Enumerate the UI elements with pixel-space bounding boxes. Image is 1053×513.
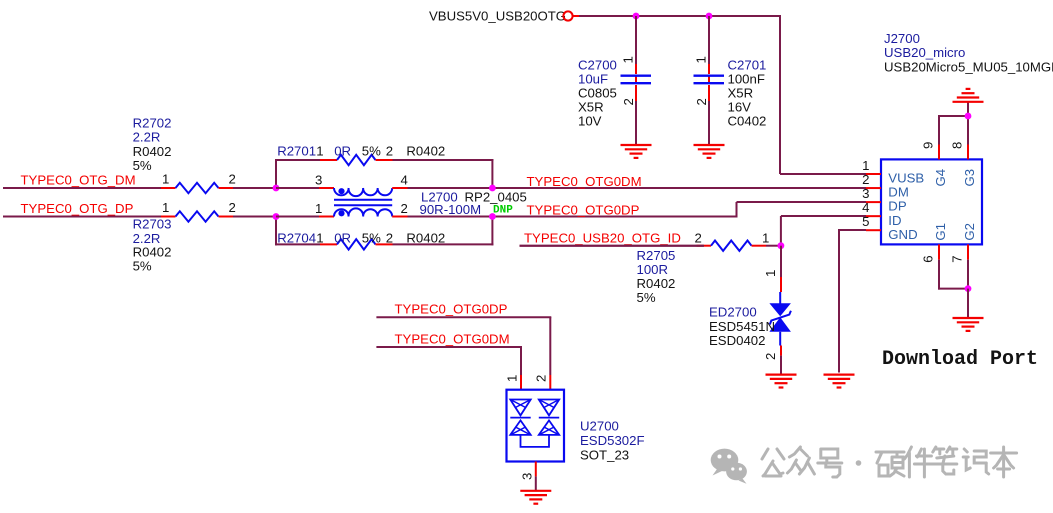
svg-text:TYPEC0_OTG_DP: TYPEC0_OTG_DP [21,201,134,216]
svg-text:3: 3 [315,172,322,187]
svg-text:R2705: R2705 [637,248,676,263]
svg-text:TYPEC0_OTG0DP: TYPEC0_OTG0DP [527,202,640,217]
svg-text:G3: G3 [962,169,977,187]
svg-text:2: 2 [694,98,709,105]
svg-text:2.2R: 2.2R [133,231,161,246]
junction VBUS/C2701 [706,13,713,20]
svg-text:2: 2 [386,230,393,245]
svg-text:ESD5302F: ESD5302F [580,433,645,448]
svg-text:X5R: X5R [578,100,604,115]
junction DM/R2701 [273,185,280,192]
svg-text:X5R: X5R [728,86,754,101]
wire J2700 pin5 GND [839,229,866,231]
wire loop R2701 left [275,160,277,188]
svg-text:5%: 5% [133,158,152,173]
svg-text:R0402: R0402 [406,230,445,245]
wire VBUS rail [579,15,781,17]
wire GND down [838,229,840,373]
svg-text:G4: G4 [933,169,948,187]
svg-text:1: 1 [763,270,778,277]
svg-text:1: 1 [316,230,323,245]
wire TYPEC0_OTG_DP [3,216,161,218]
wire down to U2700 pin2 [549,317,551,375]
junction bottom ground [965,285,972,292]
J2700 pin 6 G1 [938,244,940,259]
connector J2700 [881,159,982,244]
terminal VBUS5V0_USB20OTG [563,11,572,20]
wire loop R2704 bottom-right [393,243,494,245]
svg-text:7: 7 [950,255,965,262]
svg-text:2: 2 [401,201,408,216]
svg-text:1: 1 [505,375,520,382]
wire TYPEC0_USB20_OTG_ID overlay [520,245,705,247]
common-mode choke L2700 [276,188,408,217]
svg-text:R2701: R2701 [277,144,316,159]
svg-text:2: 2 [621,98,636,105]
svg-text:VUSB: VUSB [888,171,924,186]
wire loop R2704 right [491,217,493,246]
svg-text:J2700: J2700 [884,31,920,46]
svg-text:R0402: R0402 [637,276,676,291]
ground J2700 top [953,89,984,102]
ESD array U2700 [507,390,565,462]
wire DP to J2700 pin3 [737,201,867,203]
svg-text:ESD5451N: ESD5451N [709,319,775,334]
ESD diode ED2700 [769,246,791,375]
svg-text:5%: 5% [133,259,152,274]
svg-text:C2700: C2700 [578,58,617,73]
J2700 pin 9 G4 [938,145,940,160]
wire pin7 down [967,260,969,290]
svg-text:TYPEC0_USB20_OTG_ID: TYPEC0_USB20_OTG_ID [524,230,681,245]
svg-text:2: 2 [229,200,236,215]
U2700 pin 1 [520,375,522,390]
wire top join [938,115,969,117]
svg-text:5%: 5% [362,230,381,245]
svg-text:DP: DP [888,199,907,214]
U2700 diode pair B [539,400,559,435]
J2700 pin 4 ID [866,215,881,217]
wire TYPEC0_OTG_DM [3,187,161,189]
wire R2703 to junction [233,216,277,218]
J2700 pin 7 G2 [967,244,969,259]
wire loop R2701 top-left [275,159,320,161]
resistor R2705 [697,241,767,251]
svg-text:100R: 100R [637,262,669,277]
wire ID jog up [780,216,782,246]
J2700 pin 1 VUSB [866,173,881,175]
capacitor C2700 [621,16,652,145]
svg-text:90R-100M: 90R-100M [420,202,482,217]
ground C2701 [694,145,725,158]
svg-text:2.2R: 2.2R [133,130,161,145]
svg-text:DNP: DNP [493,204,513,216]
svg-text:R0402: R0402 [406,144,445,159]
svg-text:2: 2 [763,353,778,360]
svg-text:0R: 0R [334,230,351,245]
watermark text [762,447,1017,477]
svg-text:2: 2 [695,230,702,245]
svg-text:5%: 5% [362,144,381,159]
wire TYPEC0_USB20_OTG_ID [520,245,704,247]
wire VBUS stub [573,15,580,17]
capacitor C2701 [694,16,725,145]
svg-text:1: 1 [621,56,636,63]
wire loop R2701 right [491,159,493,188]
svg-text:TYPEC0_OTG0DP: TYPEC0_OTG0DP [395,302,508,317]
svg-text:2: 2 [862,172,869,187]
resistor R2703 [161,211,233,221]
svg-text:16V: 16V [728,100,752,115]
svg-text:G2: G2 [962,223,977,241]
junction DP/R2704 [273,213,280,220]
wire choke out DM to J2700 pin2 [408,187,867,189]
resistor R2704 [320,239,393,249]
svg-text:5: 5 [862,214,869,229]
wire pin8 up to ground [967,102,969,145]
svg-text:ED2700: ED2700 [709,304,757,319]
J2700 pin 5 GND [866,229,881,231]
svg-text:R2703: R2703 [133,217,172,232]
wire choke out DP [408,216,738,218]
J2700 pin 3 DP [866,201,881,203]
svg-text:2: 2 [229,171,236,186]
wire loop R2704 left [275,217,277,246]
svg-text:9: 9 [921,142,936,149]
svg-text:USB20_micro: USB20_micro [884,45,965,60]
U2700 pin 3 [535,462,537,477]
svg-text:1: 1 [862,158,869,173]
svg-text:C0805: C0805 [578,86,617,101]
svg-text:1: 1 [762,230,769,245]
svg-text:3: 3 [862,186,869,201]
wire OTG0DP to U2700 [376,316,551,318]
svg-text:C0402: C0402 [728,114,767,129]
wire loop R2701 top-right [393,159,494,161]
resistor R2702 [161,183,233,193]
ground C2700 [621,145,652,158]
svg-text:TYPEC0_OTG0DM: TYPEC0_OTG0DM [395,332,510,347]
wire DP jog up [736,202,738,217]
svg-text:3: 3 [520,473,535,480]
wire U2700 pin3 to ground [535,476,537,491]
wire pin6 down [938,260,940,290]
svg-text:R2704: R2704 [277,230,316,245]
J2700 pin 2 DM [866,187,881,189]
U2700 pin 2 [549,375,551,390]
U2700 internal bus [521,435,550,447]
J2700 pin 8 G3 [967,145,969,160]
svg-text:1: 1 [162,200,169,215]
svg-text:1: 1 [162,171,169,186]
svg-text:4: 4 [862,200,869,215]
svg-text:1: 1 [315,201,322,216]
wire pin9 up [938,115,940,145]
junction DP/R2704 right [489,213,496,220]
ground ED2700 [766,375,797,388]
wire R2702 to junction [233,187,277,189]
resistor R2701 [320,155,393,165]
svg-text:1: 1 [694,56,709,63]
U2700 diode pair A [510,400,530,435]
svg-text:R0402: R0402 [133,144,172,159]
svg-text:U2700: U2700 [580,419,619,434]
wire to pin 1 [780,173,866,175]
wire ID to J2700 pin4 [781,215,866,217]
svg-text:8: 8 [950,142,965,149]
junction ID/ED2700 [778,242,785,249]
junction VBUS/C2700 [633,13,640,20]
wire down to ground [967,289,969,318]
svg-text:5%: 5% [637,290,656,305]
watermark logo [711,449,747,484]
svg-text:1: 1 [316,144,323,159]
junction DM/R2701 right [489,185,496,192]
svg-text:TYPEC0_OTG0DM: TYPEC0_OTG0DM [527,174,642,189]
svg-text:Download Port: Download Port [882,348,1038,371]
svg-text:G1: G1 [933,223,948,241]
svg-text:4: 4 [401,172,408,187]
svg-text:ESD0402: ESD0402 [709,333,765,348]
svg-text:C2701: C2701 [728,58,767,73]
ground U2700 [520,491,551,504]
wire bottom join [938,288,969,290]
svg-text:2: 2 [386,144,393,159]
svg-text:10V: 10V [578,114,602,129]
wire OTG0DM to U2700 [376,346,522,348]
svg-text:6: 6 [921,255,936,262]
svg-text:2: 2 [534,375,549,382]
wire loop R2704 bottom-left [275,243,320,245]
svg-text:R2702: R2702 [133,116,172,131]
svg-text:DM: DM [888,185,909,200]
ground J2700 bottom [953,318,984,331]
svg-text:0R: 0R [334,144,351,159]
svg-text:GND: GND [888,227,917,242]
svg-text:TYPEC0_OTG_DM: TYPEC0_OTG_DM [21,173,136,188]
svg-text:100nF: 100nF [728,72,765,87]
svg-text:10uF: 10uF [578,72,608,87]
svg-text:ID: ID [888,213,901,228]
ground GND net [824,375,855,388]
wire down to U2700 pin1 [520,347,522,375]
wire VBUS down to J2700 pin1 [779,15,781,174]
svg-text:USB20Micro5_MU05_10MGF: USB20Micro5_MU05_10MGF [884,59,1053,74]
svg-text:VBUS5V0_USB20OTG: VBUS5V0_USB20OTG [429,9,566,24]
svg-text:R0402: R0402 [133,245,172,260]
junction top ground [965,113,972,120]
wire R2705 to junction [766,245,781,247]
svg-text:SOT_23: SOT_23 [580,448,629,463]
